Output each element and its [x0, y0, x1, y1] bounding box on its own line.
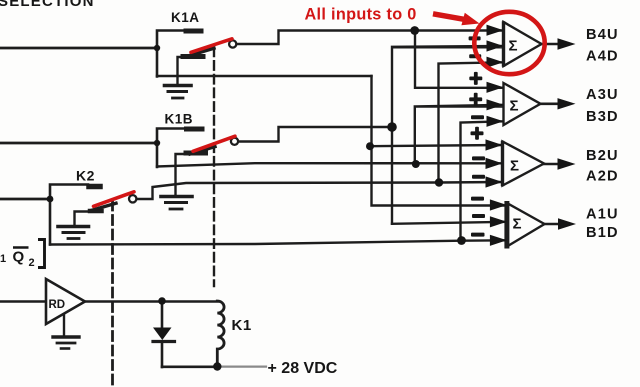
- svg-text:All inputs to 0: All inputs to 0: [305, 6, 417, 24]
- svg-text:A4D: A4D: [586, 48, 619, 64]
- svg-text:Σ: Σ: [510, 98, 519, 115]
- svg-text:Σ: Σ: [509, 38, 518, 55]
- svg-text:Σ: Σ: [510, 158, 519, 175]
- svg-text:B1D: B1D: [586, 225, 619, 241]
- svg-text:B3D: B3D: [586, 109, 619, 125]
- svg-text:A2D: A2D: [586, 169, 619, 185]
- svg-text:A3U: A3U: [586, 87, 619, 103]
- svg-text:2: 2: [29, 257, 35, 269]
- svg-text:K1A: K1A: [171, 10, 200, 25]
- svg-text:+ 28 VDC: + 28 VDC: [268, 360, 338, 377]
- svg-text:B2U: B2U: [586, 148, 619, 164]
- svg-text:Q: Q: [13, 249, 25, 266]
- svg-text:1: 1: [0, 253, 6, 265]
- svg-text:K1: K1: [232, 317, 252, 334]
- svg-text:SELECTION: SELECTION: [0, 0, 95, 10]
- svg-text:Σ: Σ: [513, 215, 522, 232]
- svg-text:K1B: K1B: [165, 112, 194, 127]
- svg-text:RD: RD: [49, 299, 66, 311]
- svg-text:K2: K2: [76, 168, 95, 184]
- svg-text:B4U: B4U: [586, 27, 619, 43]
- svg-text:A1U: A1U: [586, 207, 619, 223]
